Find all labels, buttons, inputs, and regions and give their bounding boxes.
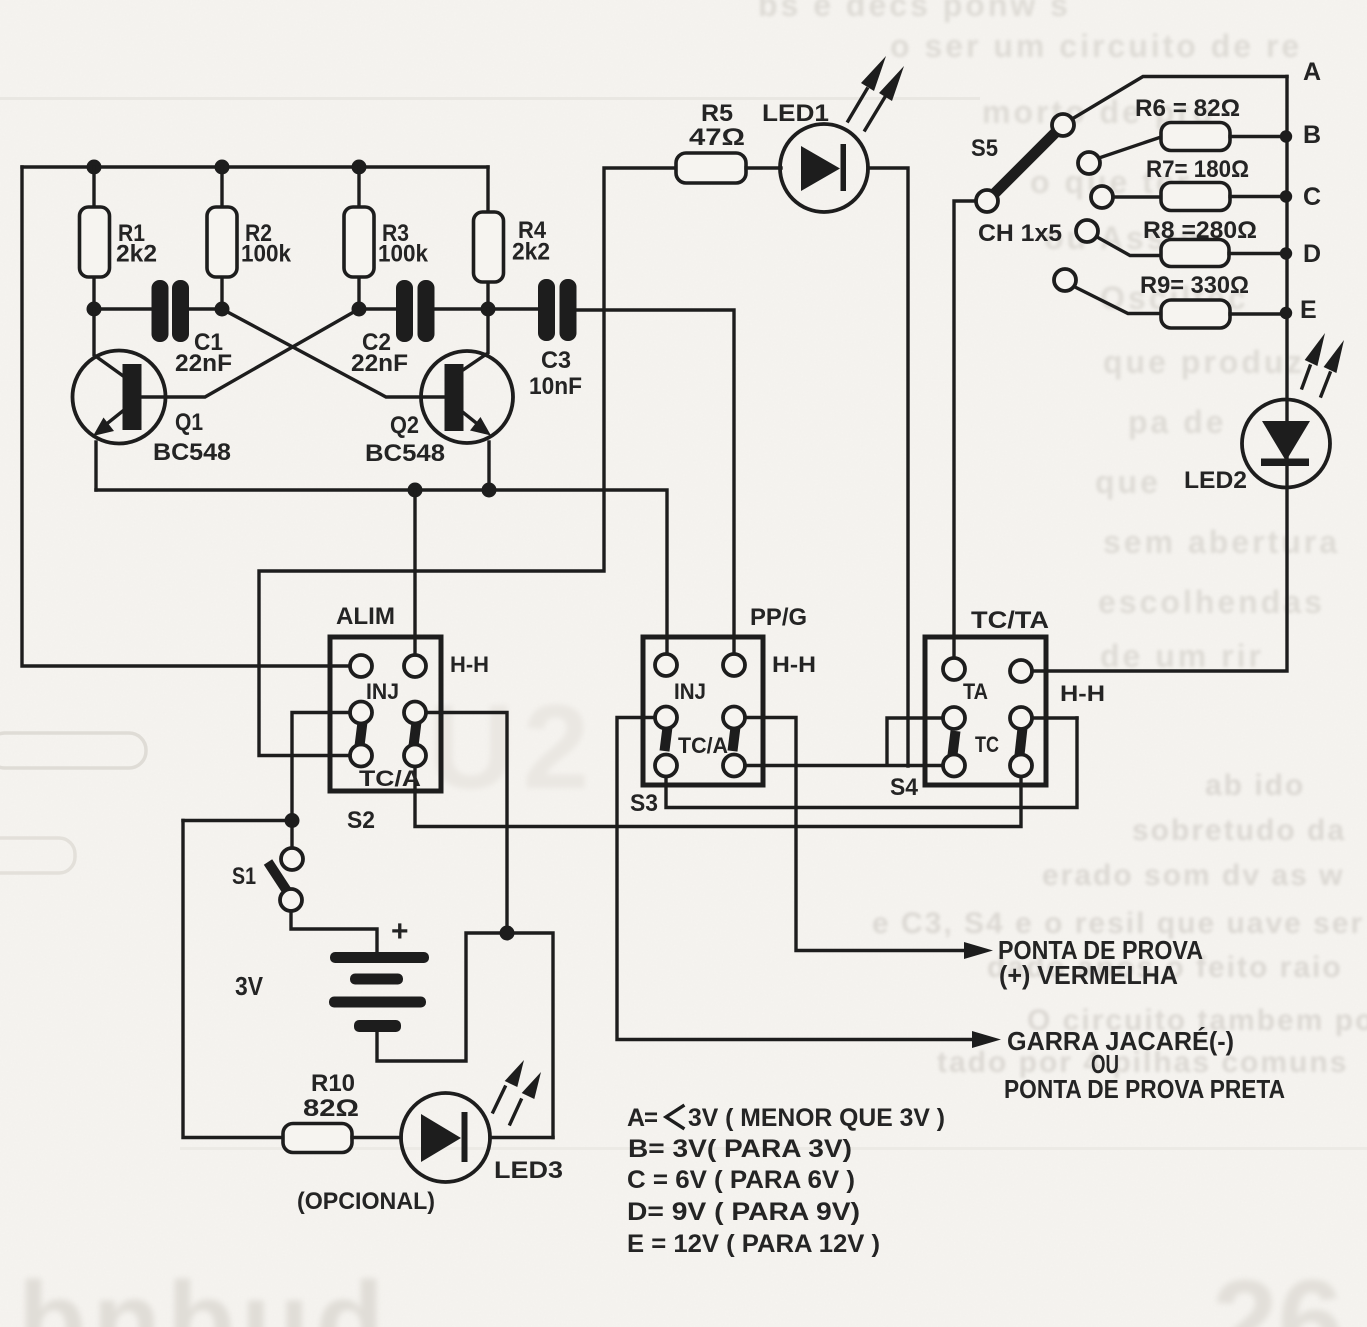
svg-text:INJ: INJ: [366, 679, 399, 704]
svg-text:U2: U2: [428, 680, 597, 814]
svg-text:escolhendas: escolhendas: [1098, 584, 1325, 620]
svg-text:LED3: LED3: [494, 1157, 563, 1184]
wire battery minus loop to LED3 net: [377, 933, 553, 1138]
wire top supply rail: [22, 165, 488, 168]
LED3 light arrows: [493, 1060, 541, 1124]
wire R5 feed from injector output down to S2 bottom-left pin: [259, 168, 676, 756]
svg-text:22nF: 22nF: [351, 350, 408, 377]
resistor R1: [80, 167, 110, 309]
node R2/C1 junction: [215, 302, 230, 317]
svg-text:R5: R5: [701, 100, 733, 127]
svg-text:LED2: LED2: [1184, 467, 1247, 494]
wire left branch down to R10: [183, 821, 283, 1138]
svg-text:D: D: [1303, 240, 1321, 268]
node top rail junction R1: [87, 160, 102, 175]
LED3: [401, 1093, 490, 1182]
svg-text:PONTA DE PROVA PRETA: PONTA DE PROVA PRETA: [1004, 1074, 1285, 1104]
wire cross-coupling R2 node to Q2 base: [222, 309, 446, 397]
wire contact D to R8: [1097, 237, 1161, 256]
wire R7 to bus node C: [1230, 195, 1287, 198]
wire emitter ground rail: [96, 490, 667, 654]
wire C1 right plate to node B2: [189, 307, 222, 310]
capacitor C2: [396, 280, 435, 342]
svg-text:ab ido: ab ido: [1205, 769, 1305, 802]
LED1 light arrows: [848, 56, 904, 130]
svg-text:BC548: BC548: [153, 439, 231, 466]
contact B of S5: [1078, 152, 1100, 174]
svg-text:100k: 100k: [241, 241, 292, 268]
battery B1 3V: [329, 952, 429, 1032]
svg-text:3V: 3V: [235, 971, 264, 1001]
svg-text:sem abertura: sem abertura: [1103, 524, 1340, 560]
svg-text:2k2: 2k2: [512, 239, 550, 266]
LED2: [1242, 400, 1330, 488]
svg-text:LED1: LED1: [762, 100, 829, 127]
resistor R10: [283, 1124, 352, 1153]
svg-text:pa de: pa de: [1128, 404, 1227, 440]
svg-text:Q2: Q2: [390, 412, 419, 439]
svg-text:H-H: H-H: [450, 652, 489, 677]
node bus E: [1280, 307, 1292, 319]
LED1: [780, 124, 868, 212]
wire S2 bottom-right pin to long bottom net: [415, 767, 1021, 827]
capacitor C3: [538, 279, 577, 341]
svg-text:C = 6V ( PARA 6V ): C = 6V ( PARA 6V ): [627, 1166, 855, 1194]
svg-text:B= 3V( PARA 3V): B= 3V( PARA 3V): [628, 1135, 852, 1163]
node emitter rail Q2: [482, 483, 497, 498]
svg-text:R7= 180Ω: R7= 180Ω: [1146, 156, 1249, 183]
wire node row R3 to C2: [359, 307, 396, 310]
wire C3 right plate across to S3 PP/G top-right pin: [577, 310, 735, 654]
svg-text:3V ( MENOR QUE 3V ): 3V ( MENOR QUE 3V ): [688, 1104, 945, 1132]
svg-text:o ser um circuito de re: o ser um circuito de re: [890, 28, 1302, 64]
node bus B: [1280, 130, 1292, 142]
svg-text:10nF: 10nF: [529, 373, 582, 400]
node R3/C2 junction: [352, 302, 367, 317]
scan artifact: faint capsule ghost left edge: [0, 733, 146, 768]
wire cross-coupling Q1 base to R3 node: [141, 309, 360, 397]
svg-text:de um rir: de um rir: [1100, 638, 1264, 674]
svg-text:BC548: BC548: [365, 440, 445, 467]
transistor Q1: [73, 309, 166, 490]
wire LED3 right side: [490, 1136, 553, 1139]
LED2 light arrows: [1302, 333, 1344, 396]
wire S3 middle-right pin down to PONTA DE PROVA arrow: [745, 718, 975, 951]
svg-text:S2: S2: [347, 807, 375, 834]
contact D of S5: [1076, 220, 1098, 242]
svg-text:47Ω: 47Ω: [689, 124, 745, 151]
svg-text:82Ω: 82Ω: [303, 1095, 359, 1122]
svg-text:INJ: INJ: [674, 679, 706, 704]
arrowhead GARRA JACARE: [972, 1031, 1001, 1048]
switch block S3 PP/G: [643, 637, 763, 785]
wire R8 to bus node D: [1229, 252, 1287, 255]
svg-text:H-H: H-H: [772, 652, 816, 677]
svg-text:TA: TA: [963, 679, 988, 704]
wire LED1 down to S4 TC/TA bottom-left pin: [868, 168, 908, 766]
svg-text:(OPCIONAL): (OPCIONAL): [297, 1188, 435, 1215]
wire contact E to R9: [1075, 287, 1161, 314]
wire right bus A-E down through LED2 to S4 top-right pin: [1032, 77, 1287, 672]
svg-text:que produz: que produz: [1103, 344, 1305, 380]
switch S5 pole wire down to S4 top-left pin: [954, 201, 976, 658]
node bus D: [1280, 247, 1292, 259]
node bus C: [1280, 190, 1292, 202]
svg-text:26: 26: [1212, 1256, 1343, 1327]
svg-text:S3: S3: [630, 790, 658, 817]
scan artifact: faint horizontal streaks: [0, 97, 980, 100]
contact E of S5: [1054, 269, 1076, 291]
svg-text:R8 =280Ω: R8 =280Ω: [1143, 217, 1257, 244]
resistor R7: [1161, 183, 1230, 211]
svg-text:D= 9V ( PARA 9V): D= 9V ( PARA 9V): [627, 1198, 860, 1226]
svg-text:2k2: 2k2: [116, 241, 157, 268]
resistor R6: [1161, 123, 1230, 151]
svg-text:TC/A: TC/A: [678, 733, 728, 758]
wire R6 to bus node B: [1230, 135, 1287, 138]
svg-text:R6 = 82Ω: R6 = 82Ω: [1135, 95, 1240, 122]
node emitter rail / S2 top-right feed: [408, 483, 423, 498]
svg-text:que: que: [1095, 464, 1161, 500]
svg-text:R10: R10: [311, 1070, 355, 1097]
switch S5: [976, 114, 1074, 212]
svg-text:E: E: [1300, 296, 1317, 324]
node R4/C2/C3 junction: [481, 302, 496, 317]
resistor R5: [676, 153, 746, 183]
wire S3 middle-left pin down to GARRA arrow: [617, 718, 983, 1040]
resistor R3: [344, 167, 374, 309]
wire S2 middle-left pin to S1 junction: [292, 713, 350, 849]
svg-text:C3: C3: [541, 347, 571, 374]
scan artifact: faint partial capsule left edge: [0, 838, 75, 873]
resistor R4: [474, 167, 504, 309]
wire left border down to S2 ALIM top-left pin: [22, 167, 350, 666]
wire S4 middle-right pin corner: [1032, 716, 1077, 719]
wire R5 to LED1: [746, 166, 781, 169]
svg-text:CH 1x5: CH 1x5: [978, 220, 1062, 247]
svg-text:S1: S1: [232, 863, 256, 890]
node R1/C1 junction: [87, 302, 102, 317]
wire C2 right plate to Q2 collector node: [435, 307, 489, 310]
svg-text:S4: S4: [890, 774, 919, 801]
svg-text:B: B: [1303, 121, 1321, 149]
svg-text:H-H: H-H: [1060, 681, 1105, 706]
svg-text:A: A: [627, 1104, 645, 1132]
svg-text:(+) VERMELHA: (+) VERMELHA: [999, 960, 1178, 990]
svg-text:22nF: 22nF: [175, 350, 232, 377]
switch S1: [183, 813, 303, 911]
wire node row Q1 collector net: [94, 307, 152, 310]
svg-text:bnbud: bnbud: [18, 1259, 390, 1327]
svg-text:S5: S5: [971, 135, 998, 162]
node battery minus / S2 middle-right junction: [500, 926, 515, 941]
svg-text:PP/G: PP/G: [750, 604, 807, 631]
svg-text:ALIM: ALIM: [336, 603, 395, 630]
wire R9 to bus node E: [1230, 312, 1287, 315]
svg-text:TC/A: TC/A: [359, 766, 421, 791]
svg-text:GARRA JACARÉ(-): GARRA JACARÉ(-): [1007, 1026, 1234, 1056]
switch block S4 TC/TA: [925, 637, 1046, 785]
svg-text:R9= 330Ω: R9= 330Ω: [1140, 272, 1249, 299]
svg-text:E = 12V ( PARA 12V ): E = 12V ( PARA 12V ): [627, 1230, 880, 1258]
contact C of S5: [1091, 186, 1113, 208]
wire Q2 collector node to C3: [488, 307, 538, 310]
wire S3 bottom-left pin to S4 middle-right net: [666, 718, 1077, 808]
node top rail junction R2: [215, 160, 230, 175]
svg-text:TC/TA: TC/TA: [971, 607, 1049, 634]
capacitor C1: [152, 280, 190, 342]
wire contact B to R6: [1099, 137, 1161, 158]
wire R10 to LED3: [352, 1136, 401, 1139]
switch block S2 ALIM: [330, 637, 441, 791]
wire S5 throw A to right bus: [1072, 77, 1287, 120]
svg-text:C: C: [1303, 183, 1321, 211]
wire S3 bottom-right pin to S4 middle-left pin: [745, 718, 943, 766]
svg-text:=: =: [644, 1104, 658, 1132]
svg-text:TC: TC: [975, 732, 999, 757]
resistor R8: [1161, 240, 1229, 267]
node top rail junction R3: [352, 160, 367, 175]
transistor Q2: [421, 309, 513, 490]
wire S2 top-right pin up to emitter rail: [413, 490, 416, 655]
resistor R9: [1161, 300, 1230, 328]
svg-text:bs e decs ponw s: bs e decs ponw s: [758, 0, 1071, 23]
svg-text:100k: 100k: [378, 241, 429, 268]
svg-text:+: +: [391, 915, 409, 948]
wire S1 to battery plus: [291, 911, 377, 952]
arrowhead PONTA DE PROVA: [964, 942, 993, 959]
wire S2 middle-right pin down to battery minus net: [426, 713, 507, 934]
resistor R2: [207, 167, 237, 309]
svg-text:sobretudo da: sobretudo da: [1132, 814, 1346, 847]
svg-text:erado som dv as w: erado som dv as w: [1042, 859, 1344, 892]
svg-text:Q1: Q1: [175, 409, 203, 436]
wire contact C to R7: [1113, 195, 1161, 198]
svg-text:A: A: [1303, 58, 1321, 86]
